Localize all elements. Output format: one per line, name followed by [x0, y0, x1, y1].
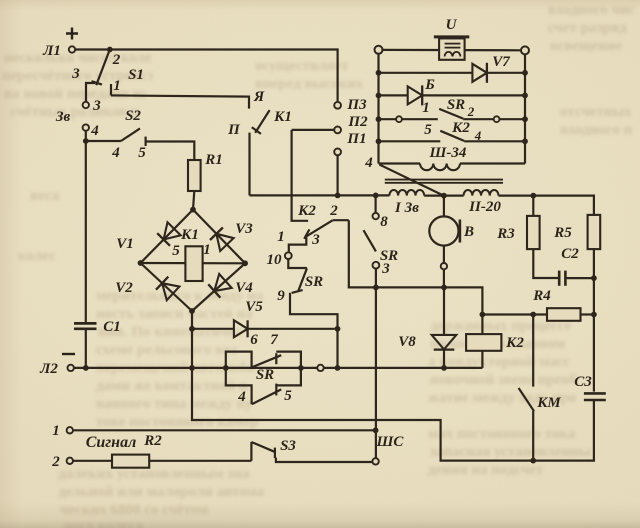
node R4 left (K2 coil top) [480, 312, 486, 318]
node bridge bottom [189, 308, 195, 314]
svg-text:К2: К2 [505, 335, 524, 351]
svg-text:10: 10 [267, 252, 283, 268]
node SR2 left rail [376, 116, 382, 122]
wire signal line 1 [73, 429, 376, 431]
terminal motor lead [441, 263, 447, 269]
svg-text:R4: R4 [532, 288, 551, 304]
diode V4 [214, 274, 231, 291]
svg-text:V1: V1 [116, 236, 134, 252]
svg-text:2: 2 [467, 104, 475, 119]
svg-text:V7: V7 [492, 54, 510, 70]
diode Б [408, 86, 423, 104]
capacitor C2 [558, 271, 561, 286]
relay coil K2 [466, 334, 501, 351]
wire SR2 mid-left [402, 118, 438, 120]
node K2 right rail [522, 138, 528, 144]
wire П vertical [248, 133, 250, 196]
wire П2 drop [292, 130, 309, 221]
svg-text:КМ: КМ [536, 395, 561, 411]
svg-text:9: 9 [277, 288, 285, 304]
node S1 junction on Л1 line [107, 47, 113, 53]
winding Ш-34 [420, 164, 460, 171]
node V7 right [522, 70, 528, 76]
node SR-chain top on rail [373, 193, 379, 199]
resistor R2 [112, 455, 149, 468]
wire left rail down to C1 [85, 131, 87, 322]
diode V7 [472, 64, 487, 82]
svg-text:П1: П1 [346, 131, 366, 147]
node signal-1 tee [373, 427, 379, 433]
svg-text:II-20: II-20 [468, 199, 501, 215]
svg-text:В: В [463, 224, 474, 240]
heater element U [434, 35, 469, 38]
svg-text:ШС: ШС [376, 434, 405, 450]
terminal box top-right [521, 46, 529, 54]
svg-text:8: 8 [380, 214, 388, 230]
terminal 3 (Зв connector) [83, 102, 89, 108]
svg-text:4: 4 [474, 128, 482, 143]
node SR2 right rail [522, 116, 528, 122]
wire C1 to Л2 rail [85, 329, 87, 368]
node bridge top [190, 207, 196, 213]
diode V5 [234, 320, 248, 337]
svg-text:V2: V2 [115, 280, 133, 296]
svg-text:SR: SR [256, 367, 274, 383]
node R4 right [591, 312, 597, 318]
wire bridge edge top-right [193, 210, 245, 264]
terminal box top-left [375, 46, 383, 54]
node Б left [376, 93, 382, 99]
wire П2 lead [292, 129, 335, 131]
node Л2-C1 junction [83, 365, 89, 371]
switch S1 [96, 50, 110, 86]
node SR block left [223, 365, 229, 371]
svg-text:К1: К1 [273, 109, 292, 125]
svg-text:2: 2 [329, 203, 338, 219]
wire bridge edge top-left [141, 210, 194, 263]
wire winding I to motor tap [424, 195, 463, 197]
node П1 on rail [335, 193, 341, 199]
wire R2 to S3 [149, 460, 251, 462]
wire contact-9 path [290, 293, 338, 368]
svg-text:3: 3 [92, 98, 101, 114]
terminal SR2 left [396, 116, 402, 122]
transformer core [385, 179, 503, 181]
svg-text:К2: К2 [451, 120, 470, 136]
wire C2 to R5 column [565, 277, 594, 279]
svg-text:Б: Б [424, 77, 435, 93]
terminal 2 (signal) [67, 458, 73, 464]
svg-text:П3: П3 [346, 97, 367, 113]
svg-text:С3: С3 [574, 374, 592, 390]
svg-text:С1: С1 [103, 319, 121, 335]
terminal 1 (signal) [67, 427, 73, 433]
wire contact-1 step [289, 237, 307, 252]
wire R3 to C2 [533, 249, 559, 278]
svg-text:I Зв: I Зв [394, 200, 419, 216]
terminal П2 [334, 126, 341, 133]
wire П1 drop to rail [337, 155, 339, 195]
terminal 8 [373, 213, 379, 219]
wire tap-4 diagonal [380, 165, 444, 196]
wire SR2 mid-right [463, 118, 494, 120]
power terminal Л1 (+) [69, 46, 75, 52]
wire bridge diagonal through K1 [141, 262, 246, 264]
svg-text:SR: SR [305, 274, 323, 290]
wire row SR2 left [379, 118, 397, 120]
wire K2-switch drop and middle rail [349, 220, 483, 334]
terminal 4 (Зв connector) [83, 124, 89, 130]
node V5 tap [189, 326, 195, 332]
node KM bottom [530, 458, 536, 464]
wire row Б [379, 94, 408, 96]
wire Л1 line to П3 drop [75, 50, 337, 102]
svg-text:SR: SR [447, 97, 465, 113]
switch SR 10-9 [288, 259, 307, 268]
switch SR 8-3 [364, 230, 376, 251]
svg-text:R5: R5 [553, 225, 572, 241]
svg-text:5: 5 [138, 145, 146, 161]
wire R1 to bridge top [193, 191, 194, 210]
relay coil K1 [185, 246, 202, 281]
svg-text:U: U [446, 17, 458, 33]
svg-text:R3: R3 [496, 226, 515, 242]
resistor R4 [547, 308, 581, 321]
svg-text:1: 1 [113, 78, 121, 94]
wire motor stem [443, 196, 445, 217]
switch SR contact 4-5 (lower) [226, 368, 252, 404]
svg-text:1: 1 [203, 242, 211, 258]
node S2 branch junction [83, 138, 89, 144]
svg-text:7: 7 [270, 332, 278, 348]
node bridge left [138, 260, 144, 266]
switch SR contact 6-7 (upper) [226, 352, 252, 368]
svg-text:Л2: Л2 [39, 361, 58, 377]
wire S1 contact-1 stub [110, 84, 112, 95]
svg-text:5: 5 [172, 243, 180, 259]
node Л2 bridge-stem junction [189, 365, 195, 371]
switch K2 contact 2-3 [306, 220, 333, 236]
svg-text:R1: R1 [204, 152, 223, 168]
svg-text:К2: К2 [297, 203, 316, 219]
svg-text:4: 4 [90, 123, 99, 139]
svg-text:R2: R2 [143, 433, 162, 449]
wire П rail to transformer [250, 194, 390, 196]
wire bottom return rail [192, 368, 594, 461]
node KM tap [530, 312, 536, 318]
node V7 left [376, 70, 382, 76]
svg-text:Сигнал: Сигнал [86, 434, 137, 451]
node SR block right [298, 365, 304, 371]
switch SR2 [439, 109, 463, 119]
wire R4 row [482, 313, 547, 315]
svg-text:5: 5 [424, 122, 432, 138]
wire V5 line [192, 328, 234, 330]
svg-text:4: 4 [111, 145, 120, 161]
svg-text:3: 3 [71, 66, 80, 82]
diode V8 [443, 287, 445, 335]
svg-text:S1: S1 [128, 67, 144, 83]
svg-text:S3: S3 [280, 438, 296, 454]
svg-text:V4: V4 [235, 280, 253, 296]
winding I (Зв) [389, 190, 424, 196]
terminal ШС line end [372, 458, 378, 464]
svg-text:2: 2 [112, 52, 121, 68]
svg-text:Ш-34: Ш-34 [429, 145, 467, 161]
svg-text:S2: S2 [125, 108, 141, 124]
wire terminal2 to R2 [73, 460, 112, 462]
diode V3 [216, 234, 233, 251]
node contact-9 path on Л2 rail [335, 365, 341, 371]
node K2 left rail [376, 138, 382, 144]
node Б right [522, 93, 528, 99]
svg-text:3: 3 [381, 261, 390, 277]
switch K1 contact [255, 110, 269, 133]
resistor R5 [588, 215, 601, 249]
wire row K2 [379, 140, 441, 142]
terminal inline on Л2 rail [317, 365, 323, 371]
node SR-3 on middle rail [373, 285, 379, 291]
svg-text:5: 5 [284, 388, 292, 404]
wire box bottom edge [379, 162, 421, 164]
svg-text:Л1: Л1 [42, 43, 61, 59]
wire Л2 rail [74, 367, 483, 369]
switch K2 (box) [440, 131, 464, 141]
wire box top rail [383, 49, 522, 52]
node V8 bottom [441, 365, 447, 371]
winding II (20) [464, 190, 499, 196]
node motor line on middle rail [441, 285, 447, 291]
switch KM [532, 315, 534, 387]
wire winding II to R3/R5 [499, 196, 594, 215]
svg-text:6: 6 [250, 332, 258, 348]
svg-text:V5: V5 [245, 299, 263, 315]
svg-text:Я: Я [253, 89, 265, 105]
terminal 3 (SR) [373, 262, 380, 269]
svg-text:1: 1 [277, 229, 285, 245]
svg-text:3: 3 [311, 232, 320, 248]
node C2-R5 junction [591, 275, 597, 281]
node motor tap [441, 193, 447, 199]
power terminal Л2 (−) [68, 365, 74, 371]
diode V2 [162, 283, 179, 300]
wire contact-1 to Я [111, 95, 249, 108]
wire V5 line to tee [334, 328, 337, 330]
wire row V7 [379, 72, 473, 74]
svg-text:С2: С2 [561, 246, 579, 262]
svg-text:4: 4 [237, 389, 246, 405]
wire S1 contact-3 step [86, 83, 95, 102]
wire row SR2 right [499, 118, 525, 120]
wire K2 coil bottom [481, 351, 483, 368]
svg-text:V3: V3 [235, 221, 253, 237]
node R3 top [530, 193, 536, 199]
terminal SR2 right [494, 116, 500, 122]
node V5 line tee [335, 326, 341, 332]
capacitor C3 [593, 315, 595, 392]
resistor R1 [188, 160, 201, 191]
wire box right rail [524, 54, 526, 163]
svg-text:Зв: Зв [55, 109, 71, 125]
wire motor lower stem [443, 246, 445, 263]
motor B [429, 216, 458, 245]
svg-text:2: 2 [51, 454, 60, 470]
svg-text:4: 4 [364, 155, 373, 171]
switch S2 [86, 140, 121, 142]
diode V1 [164, 222, 181, 239]
svg-text:П: П [227, 122, 241, 138]
wire box left rail [377, 54, 379, 164]
wire bridge edge bottom-right [192, 263, 245, 311]
capacitor C1 [74, 322, 97, 325]
wire motor lead to rail [443, 269, 445, 287]
svg-text:V8: V8 [398, 334, 416, 350]
terminal П3 [334, 102, 341, 109]
resistor R3 [532, 196, 534, 216]
svg-text:П2: П2 [347, 114, 368, 130]
svg-text:1: 1 [52, 423, 60, 439]
wire bridge bottom stem [191, 311, 193, 368]
wire S2 to R1 [146, 142, 195, 161]
wire SR-3 down to ШС terminal [375, 269, 377, 459]
node bridge right [242, 260, 248, 266]
terminal П1 [334, 149, 341, 156]
wire R5 column [593, 249, 595, 314]
wire SR-8 drop from rail [375, 195, 377, 213]
wire bridge edge bottom-left [141, 263, 193, 311]
svg-text:К1: К1 [180, 227, 199, 243]
svg-text:1: 1 [422, 100, 430, 116]
switch S3 [250, 442, 252, 461]
terminal 10 [285, 252, 292, 259]
